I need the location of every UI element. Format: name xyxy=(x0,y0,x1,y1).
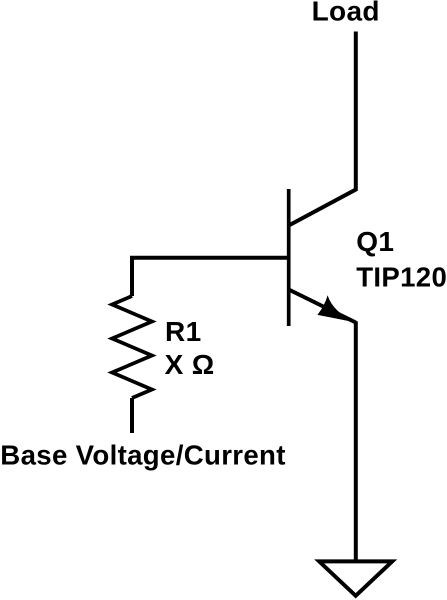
svg-text:Q1: Q1 xyxy=(356,226,394,257)
svg-text:TIP120: TIP120 xyxy=(356,261,447,292)
ground symbol xyxy=(319,561,392,595)
svg-text:R1: R1 xyxy=(165,316,202,347)
wire collector: vertical from Load then diagonal to base bar xyxy=(289,32,356,226)
svg-text:Base Voltage/Current: Base Voltage/Current xyxy=(0,439,286,470)
wire base: horizontal from bar, corner down to resistor xyxy=(132,258,289,296)
resistor R1 zigzag xyxy=(112,296,152,398)
transistor Q1 emitter diagonal xyxy=(289,290,356,323)
wire emitter vertical to ground xyxy=(354,321,358,561)
svg-text:Load: Load xyxy=(312,0,380,26)
svg-text:X Ω: X Ω xyxy=(165,349,215,380)
transistor Q1 base bar xyxy=(287,189,291,326)
transistor Q1 emitter arrowhead xyxy=(317,295,355,322)
wire resistor bottom lead xyxy=(130,398,134,433)
